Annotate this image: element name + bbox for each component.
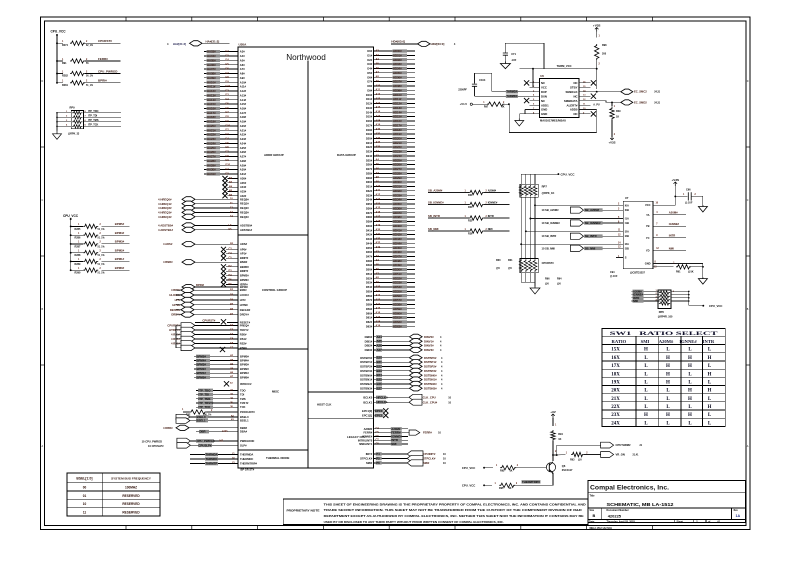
svg-text:4 HREQ0#: 4 HREQ0#	[158, 197, 172, 201]
wire CPU pin HD54#	[366, 285, 415, 289]
svg-text:D47#: D47#	[366, 255, 373, 259]
svg-text:E10: E10	[226, 85, 231, 88]
svg-text:THRMDC: THRMDC	[206, 457, 218, 461]
svg-text:RS0#: RS0#	[240, 333, 247, 337]
svg-text:ADS#: ADS#	[240, 242, 248, 246]
svg-text:A12: A12	[376, 294, 381, 297]
wire CPU pin DINV3# with page connector	[365, 347, 442, 352]
svg-text:MBLA-1512 1A2.SCH: MBLA-1512 1A2.SCH	[590, 527, 613, 530]
svg-text:THRMDC: THRMDC	[506, 94, 517, 98]
svg-text:D43#: D43#	[366, 237, 373, 241]
power +V1.5 with series resistor	[460, 102, 510, 109]
svg-text:A10: A10	[376, 185, 381, 188]
wire CPU pin HA14#	[204, 98, 247, 102]
svg-text:HD32#: HD32#	[393, 189, 402, 193]
svg-text:2200PF: 2200PF	[458, 88, 467, 91]
svg-text:ITP_TDO: ITP_TDO	[88, 110, 99, 113]
svg-text:ADSTB0#: ADSTB0#	[240, 223, 253, 227]
svg-text:THRMTP: THRMTP	[206, 462, 218, 466]
wire CPU pin HD22#	[366, 145, 415, 149]
wire tap SB_NMI to U7	[520, 242, 623, 246]
wire CPU pin HD15#	[366, 115, 415, 119]
svg-text:NC: NC	[541, 81, 545, 85]
page connector DRDY#	[171, 312, 249, 317]
svg-text:D42#: D42#	[366, 233, 373, 237]
resistor R95 on THERMTRIP# with CPU_VCC	[462, 480, 553, 490]
wire CPU pin HD51#	[366, 272, 415, 276]
wire NMI to RP6	[632, 299, 660, 304]
svg-text:A11: A11	[376, 89, 381, 92]
svg-text:IGNNE#: IGNNE#	[679, 339, 697, 344]
U6 right pin NC	[573, 94, 590, 98]
U6 right pin STBY	[570, 86, 591, 90]
svg-text:HD09#: HD09#	[393, 88, 402, 92]
page connector BNR#	[163, 260, 248, 265]
svg-text:I0A: I0A	[625, 203, 629, 207]
svg-text:REQ3#: REQ3#	[240, 210, 249, 214]
svg-text:HA12#: HA12#	[207, 89, 216, 93]
wire CPU pin HA3#	[204, 50, 245, 54]
svg-text:100MHZ: 100MHZ	[125, 486, 137, 490]
thermal sensor U6 box	[540, 79, 580, 118]
svg-text:@0: @0	[508, 267, 512, 270]
page connector PREQ#	[167, 323, 249, 328]
svg-text:BPM4#: BPM4#	[115, 231, 125, 235]
svg-text:Northwood: Northwood	[286, 53, 326, 62]
CPU internal divider control/misc	[238, 348, 308, 350]
svg-text:A21: A21	[376, 132, 381, 135]
svg-text:D1#: D1#	[367, 54, 372, 58]
svg-text:ITP_TMS: ITP_TMS	[88, 119, 99, 122]
svg-text:HD34#: HD34#	[393, 198, 402, 202]
wire A20M# to RP6	[632, 289, 660, 293]
svg-text:00: 00	[83, 486, 87, 490]
page connector RS2#	[171, 341, 247, 346]
svg-text:BPM0#: BPM0#	[240, 375, 249, 379]
svg-text:EPC0: EPC0	[375, 409, 383, 413]
svg-text:RESERVED: RESERVED	[122, 511, 140, 515]
wire CPU_VCC vertical feed	[56, 35, 58, 83]
svg-text:HD27#: HD27#	[393, 167, 402, 171]
svg-text:PWRGOOD: PWRGOOD	[240, 439, 254, 443]
svg-text:S: S	[625, 256, 627, 260]
wires RP7 vertical feeds	[521, 174, 535, 184]
svg-text:D21#: D21#	[366, 141, 373, 145]
svg-text:A20M#: A20M#	[669, 211, 678, 215]
svg-text:19X: 19X	[611, 381, 620, 386]
wire CPU pin BCLK1 clock input	[363, 399, 451, 405]
svg-text:A20M#: A20M#	[488, 189, 497, 193]
svg-text:I2A: I2A	[625, 229, 629, 233]
ground below C71	[500, 62, 510, 69]
svg-text:YA: YA	[646, 213, 649, 217]
svg-text:D58#: D58#	[366, 303, 373, 307]
svg-text:H: H	[666, 413, 670, 418]
svg-text:DSTBP3#: DSTBP3#	[360, 369, 372, 373]
svg-text:D56#: D56#	[366, 294, 373, 298]
power +V3S for thermal sensor	[595, 28, 599, 32]
resistor R289 pullup to BPM1#	[71, 260, 84, 262]
svg-text:DSTBP2#: DSTBP2#	[360, 365, 372, 369]
proprietary note box	[283, 499, 588, 524]
svg-text:R29: R29	[616, 110, 621, 113]
svg-text:10 CPU_PWRGD: 10 CPU_PWRGD	[142, 439, 163, 443]
svg-text:TDO: TDO	[240, 388, 246, 392]
wire net BPM1#	[102, 260, 130, 262]
svg-text:DINV0#: DINV0#	[424, 335, 434, 339]
svg-text:A17#: A17#	[240, 111, 247, 115]
svg-text:P5: P5	[376, 456, 380, 460]
svg-text:BPM3#: BPM3#	[240, 278, 249, 282]
wire CPU pin HD58#	[366, 303, 415, 307]
svg-text:A12#: A12#	[240, 89, 247, 93]
svg-text:A19: A19	[376, 325, 381, 328]
svg-text:BPM2#: BPM2#	[240, 274, 249, 278]
wire net BPM5# to CPU	[194, 354, 249, 358]
svg-text:D4#: D4#	[367, 67, 372, 71]
svg-text:DSTBN2#: DSTBN2#	[360, 382, 373, 386]
svg-text:CLK_CPU: CLK_CPU	[423, 395, 436, 399]
svg-text:TCK: TCK	[240, 405, 246, 409]
svg-text:20X: 20X	[611, 389, 620, 394]
svg-text:THERMTRIP#: THERMTRIP#	[522, 480, 540, 484]
resistor R286 pullup to BPM4#	[71, 234, 84, 236]
svg-text:+V3S: +V3S	[672, 178, 680, 182]
svg-text:D11#: D11#	[366, 97, 373, 101]
svg-text:51_1%: 51_1%	[98, 264, 105, 266]
wire CPU pin HD46#	[366, 250, 415, 254]
svg-text:H: H	[688, 389, 692, 394]
svg-text:@RPK_1K: @RPK_1K	[542, 191, 555, 195]
svg-text:D26#: D26#	[366, 163, 373, 167]
svg-text:I2B: I2B	[625, 234, 629, 238]
svg-text:A19: A19	[376, 224, 381, 227]
svg-text:D28#: D28#	[366, 172, 373, 176]
wire CPU pin HA10#	[204, 80, 247, 84]
wire CPU pin HD56#	[366, 294, 415, 298]
wire CPU pin HD5#	[367, 71, 415, 75]
svg-text:21X: 21X	[611, 397, 620, 402]
svg-text:D32#: D32#	[366, 189, 373, 193]
svg-text:@0: @0	[545, 283, 549, 286]
svg-text:RP9: RP9	[70, 106, 76, 110]
svg-text:4 HREQ4#: 4 HREQ4#	[158, 215, 172, 219]
svg-text:A14: A14	[376, 102, 381, 105]
wire net BSEL1	[176, 418, 249, 423]
svg-text:DSTBP0#: DSTBP0#	[424, 356, 437, 360]
wire SMBDATA to EC with page connector	[591, 100, 661, 107]
svg-text:1K: 1K	[501, 106, 504, 109]
svg-text:HA25#: HA25#	[207, 146, 216, 150]
svg-text:HD62#: HD62#	[393, 320, 402, 324]
ground symbol R61	[698, 277, 707, 284]
resistor pack RP6	[658, 290, 673, 318]
svg-text:RESERVED: RESERVED	[122, 502, 140, 506]
svg-text:10 SB_NMI: 10 SB_NMI	[542, 246, 556, 250]
svg-text:SCHEMATIC, MB LA-1512: SCHEMATIC, MB LA-1512	[607, 502, 674, 508]
U6 right pin ADD0	[570, 108, 591, 112]
svg-text:HA03#: HA03#	[207, 50, 216, 54]
svg-text:I0B: I0B	[625, 208, 629, 212]
wire net DBA#	[196, 430, 248, 434]
wire CPU pin HD10#	[366, 93, 415, 97]
svg-text:D27#: D27#	[366, 167, 373, 171]
svg-text:THERMDC: THERMDC	[240, 457, 253, 461]
svg-text:R34: R34	[468, 206, 473, 209]
svg-text:NC: NC	[541, 99, 545, 103]
svg-text:THERMAL DIODE: THERMAL DIODE	[266, 456, 290, 460]
svg-text:A20M#: A20M#	[364, 427, 373, 431]
svg-text:D13#: D13#	[366, 106, 373, 110]
svg-text:RSP#: RSP#	[240, 346, 247, 350]
wire ADD loop left vertical	[508, 105, 510, 133]
svg-text:A123: A123	[222, 430, 228, 433]
svg-text:HA15#: HA15#	[207, 102, 216, 106]
svg-text:4 ADSTB1#: 4 ADSTB1#	[158, 228, 173, 232]
wire CPU pin DSTBN1# with page connector	[360, 377, 443, 382]
svg-text:GND: GND	[541, 108, 547, 112]
svg-text:NC: NC	[573, 112, 577, 116]
svg-text:HD37#: HD37#	[393, 211, 402, 215]
svg-text:A20: A20	[376, 229, 381, 232]
page connector HREQ1#	[158, 201, 249, 206]
svg-text:DEPARTMENT EXCEPT AS AUTHORIZE: DEPARTMENT EXCEPT AS AUTHORIZED BY COMPA…	[324, 514, 584, 518]
svg-text:D60#: D60#	[366, 311, 373, 315]
svg-text:NMI: NMI	[669, 246, 674, 250]
svg-text:21,41: 21,41	[633, 454, 640, 457]
svg-text:H: H	[688, 413, 692, 418]
svg-text:THRMDA: THRMDA	[206, 453, 218, 457]
wires RP6 to CPU_VCC join	[671, 291, 703, 305]
wire tap SB_A20M# to U7	[534, 204, 623, 207]
wire net BPM2# to CPU	[194, 367, 249, 371]
svg-text:PROCHOT#: PROCHOT#	[240, 410, 255, 414]
wire net BPRI#	[85, 82, 121, 84]
svg-text:A18#: A18#	[240, 115, 247, 119]
svg-text:SB_INTR: SB_INTR	[428, 214, 440, 218]
no-connect X on CPU control pin	[221, 247, 247, 252]
svg-text:@0: @0	[496, 267, 500, 270]
svg-text:1K: 1K	[616, 116, 619, 119]
wire CPU pin HD59#	[366, 307, 415, 311]
svg-text:BPM1#: BPM1#	[240, 371, 249, 375]
power +V3S lower	[609, 137, 616, 145]
svg-text:I1A: I1A	[625, 217, 629, 221]
svg-text:U6: U6	[540, 74, 544, 78]
svg-text:D3#: D3#	[367, 62, 372, 66]
svg-text:D52#: D52#	[366, 276, 373, 280]
wire CPU pin HA17#	[204, 111, 247, 115]
svg-text:HD40#: HD40#	[393, 224, 402, 228]
wire CPU pin HA19#	[204, 120, 247, 124]
svg-text:A23: A23	[376, 242, 381, 245]
no-connect X on CPU addr pin	[222, 180, 246, 185]
svg-text:D57#: D57#	[366, 298, 373, 302]
svg-text:DBR: DBR	[200, 430, 206, 434]
svg-text:D49#: D49#	[366, 263, 373, 267]
svg-text:Title: Title	[590, 494, 596, 497]
svg-text:DSTBN0#: DSTBN0#	[424, 373, 437, 377]
svg-text:CPUSLP#: CPUSLP#	[199, 443, 212, 447]
svg-text:56_1%: 56_1%	[86, 76, 93, 78]
capacitor C96 decoupling U7	[674, 189, 703, 205]
svg-text:A15: A15	[376, 106, 381, 109]
svg-text:B: B	[593, 514, 596, 518]
wire net THERMDC	[190, 457, 253, 461]
wire CPU pin HD2#	[367, 58, 415, 62]
wire CPU pin HD19#	[366, 132, 415, 136]
wire CPU pin HD12#	[366, 102, 415, 106]
svg-text:A26: A26	[377, 344, 383, 348]
svg-text:DSTBP3#: DSTBP3#	[424, 369, 437, 373]
svg-text:B20: B20	[377, 356, 383, 360]
wires RP8 to ground	[521, 273, 535, 287]
svg-text:A18: A18	[376, 220, 381, 223]
wire net ITP_TCK	[83, 125, 121, 127]
svg-text:C: C	[42, 199, 44, 202]
svg-text:1K: 1K	[509, 487, 512, 490]
svg-text:D31#: D31#	[366, 185, 373, 189]
svg-text:GND: GND	[645, 262, 651, 266]
svg-text:BPM3#: BPM3#	[240, 363, 249, 367]
svg-text:BP GR ST#: BP GR ST#	[241, 467, 255, 471]
svg-text:R31: R31	[508, 259, 513, 262]
svg-text:D9#: D9#	[367, 88, 372, 92]
svg-text:R289: R289	[75, 263, 82, 266]
wire CPU pin HD16#	[366, 119, 415, 123]
svg-text:15X: 15X	[611, 348, 620, 353]
svg-text:INTR/LINT0: INTR/LINT0	[358, 438, 373, 442]
svg-text:HD46#: HD46#	[393, 250, 402, 254]
page connector RSP#	[181, 345, 247, 350]
svg-text:B23: B23	[377, 369, 383, 373]
svg-text:D: D	[42, 80, 44, 83]
svg-text:H: H	[708, 405, 712, 410]
svg-text:A32#: A32#	[240, 194, 247, 198]
svg-text:NMI/LINT1: NMI/LINT1	[359, 442, 373, 446]
wire CPU pin DINV2# with page connector	[365, 343, 442, 348]
svg-text:A20M#: A20M#	[659, 339, 674, 344]
svg-text:Size: Size	[590, 510, 595, 512]
wire CPU pin FERR#	[363, 430, 441, 435]
svg-text:EC_SMD2: EC_SMD2	[634, 100, 647, 104]
svg-text:HA20#: HA20#	[207, 124, 216, 128]
svg-text:A25#: A25#	[240, 146, 247, 150]
wire CPU pin HA18#	[204, 115, 247, 119]
svg-text:A19#: A19#	[240, 120, 247, 124]
svg-text:A11: A11	[376, 290, 381, 293]
svg-text:DSTBP2#: DSTBP2#	[424, 365, 437, 369]
wire net BPM2#	[102, 252, 130, 254]
svg-text:H: H	[666, 364, 670, 369]
wire net ITP_TDO	[196, 388, 246, 392]
svg-text:10 SB_A20M#: 10 SB_A20M#	[542, 208, 560, 212]
svg-text:51_1%: 51_1%	[98, 273, 105, 275]
svg-text:H: H	[666, 381, 670, 386]
svg-text:D55#: D55#	[366, 290, 373, 294]
svg-text:@RPK_33: @RPK_33	[68, 133, 80, 136]
svg-text:D35#: D35#	[366, 202, 373, 206]
svg-text:@0: @0	[557, 283, 561, 286]
wire CPU pin STPCLK# with output flag	[360, 455, 446, 461]
svg-text:RS2#: RS2#	[240, 342, 247, 346]
wire CPU pin HD42#	[366, 233, 415, 237]
CPU internal divider vertical	[307, 61, 309, 469]
svg-text:D22#: D22#	[366, 145, 373, 149]
svg-text:HA13#: HA13#	[207, 93, 216, 97]
svg-text:D24#: D24#	[366, 154, 373, 158]
U7 GND pin wire	[645, 262, 703, 269]
svg-text:SW1 RATIO SELECT: SW1 RATIO SELECT	[610, 331, 719, 337]
svg-text:DXN: DXN	[541, 94, 547, 98]
wire CPU pin DSTBP2# with page connector	[360, 364, 443, 369]
wire CPU_VCC feed to RP7	[521, 172, 575, 176]
svg-text:TRADE SECRET INFORMATION. THIS: TRADE SECRET INFORMATION. THIS SHEET MAY…	[324, 508, 582, 512]
svg-text:R287: R287	[75, 245, 82, 248]
wire CPU pin HD8#	[367, 84, 415, 88]
wire INTR to RP6	[632, 296, 660, 300]
svg-text:EPC1[1]: EPC1[1]	[362, 414, 372, 418]
resistor R91 pullup to FERR#	[57, 60, 63, 62]
wire CPU pin HD47#	[366, 255, 415, 259]
svg-text:INTR: INTR	[488, 214, 494, 218]
svg-text:A21: A21	[376, 233, 381, 236]
svg-text:16X: 16X	[611, 356, 620, 361]
svg-text:SB_NMI: SB_NMI	[428, 227, 439, 231]
svg-text:10 SB_IGNNE#: 10 SB_IGNNE#	[542, 221, 561, 225]
U6 left pin NC	[530, 99, 546, 103]
wire U6 VCC to THRM_VCC rail	[532, 68, 540, 88]
svg-text:A24: A24	[376, 146, 381, 149]
svg-text:.1UF: .1UF	[511, 59, 517, 62]
svg-text:HD23#: HD23#	[393, 150, 402, 154]
wire net ITP_TDI	[83, 116, 121, 118]
resistor R98 pullup	[595, 32, 608, 90]
svg-text:DINV3#: DINV3#	[424, 348, 434, 352]
svg-text:DSTBN3#: DSTBN3#	[424, 386, 437, 390]
svg-text:RS1#: RS1#	[240, 337, 247, 341]
svg-text:STBY: STBY	[570, 86, 578, 90]
svg-text:SB_INTR: SB_INTR	[585, 234, 597, 238]
page connector HREQ0#	[158, 197, 249, 202]
wire CPU pin HD44#	[366, 241, 415, 245]
svg-text:R98: R98	[602, 44, 607, 47]
svg-text:A16: A16	[376, 111, 381, 114]
svg-text:SMBDATA: SMBDATA	[564, 99, 578, 103]
svg-text:HA28#: HA28#	[207, 159, 216, 163]
U6 left pin ADD1	[530, 103, 550, 107]
svg-text:HD33#: HD33#	[393, 193, 402, 197]
svg-text:CPU_VCC: CPU_VCC	[462, 466, 475, 470]
page connector RS1#	[171, 336, 247, 341]
wire tap SB_IGNNE# to U7	[529, 217, 623, 220]
wire CPU pin HD26#	[366, 163, 415, 167]
svg-text:R286: R286	[75, 237, 82, 240]
svg-text:11: 11	[83, 511, 87, 515]
wire CPU pin HD32#	[366, 189, 415, 193]
svg-text:HA08#: HA08#	[207, 72, 216, 76]
svg-text:R281: R281	[62, 84, 69, 87]
svg-text:FERR#: FERR#	[423, 431, 432, 435]
svg-text:A23#: A23#	[240, 137, 247, 141]
svg-text:A13: A13	[376, 299, 381, 302]
wire CPU pin HD1#	[367, 54, 415, 58]
svg-text:C104: C104	[479, 78, 486, 82]
resistor R288 pullup to BPM2#	[71, 252, 84, 254]
svg-text:SB_A20M#: SB_A20M#	[428, 189, 443, 193]
svg-text:22X: 22X	[611, 405, 620, 410]
svg-text:ADSTB1#: ADSTB1#	[240, 228, 253, 232]
